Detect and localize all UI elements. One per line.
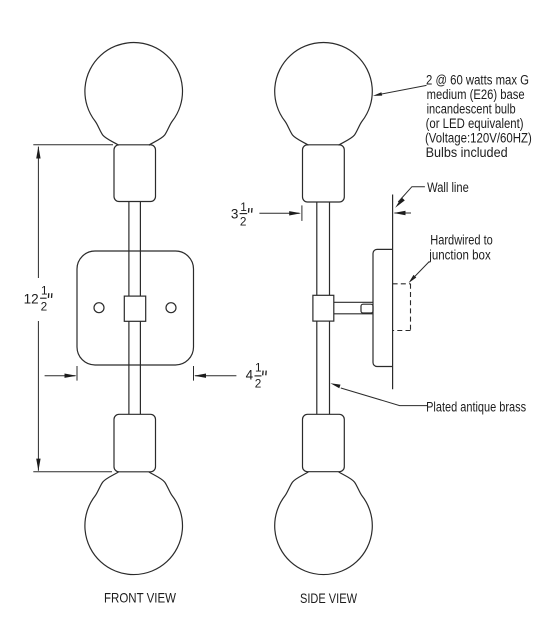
svg-text:1: 1 xyxy=(255,361,262,375)
svg-text:Plated antique brass: Plated antique brass xyxy=(426,400,526,415)
svg-text:3: 3 xyxy=(231,207,239,222)
svg-text:12: 12 xyxy=(24,291,39,306)
svg-text:(or LED equivalent): (or LED equivalent) xyxy=(426,116,524,131)
svg-text:FRONT VIEW: FRONT VIEW xyxy=(104,590,176,605)
svg-text:2: 2 xyxy=(240,214,247,228)
svg-text:junction box: junction box xyxy=(428,248,491,263)
svg-text:2: 2 xyxy=(255,377,262,391)
svg-text:Hardwired to: Hardwired to xyxy=(430,233,493,248)
svg-text:incandescent bulb: incandescent bulb xyxy=(427,101,516,116)
svg-text:1: 1 xyxy=(41,283,48,297)
svg-text:1: 1 xyxy=(240,200,247,214)
svg-text:Bulbs included: Bulbs included xyxy=(426,145,508,160)
svg-text:2 @ 60 watts max G: 2 @ 60 watts max G xyxy=(426,72,529,87)
svg-text:SIDE VIEW: SIDE VIEW xyxy=(300,591,357,606)
svg-text:4: 4 xyxy=(246,367,254,382)
svg-text:(Voltage:120V/60HZ): (Voltage:120V/60HZ) xyxy=(425,130,532,145)
svg-text:2: 2 xyxy=(41,300,48,314)
svg-text:medium (E26) base: medium (E26) base xyxy=(427,87,525,102)
svg-text:Wall line: Wall line xyxy=(427,180,469,195)
